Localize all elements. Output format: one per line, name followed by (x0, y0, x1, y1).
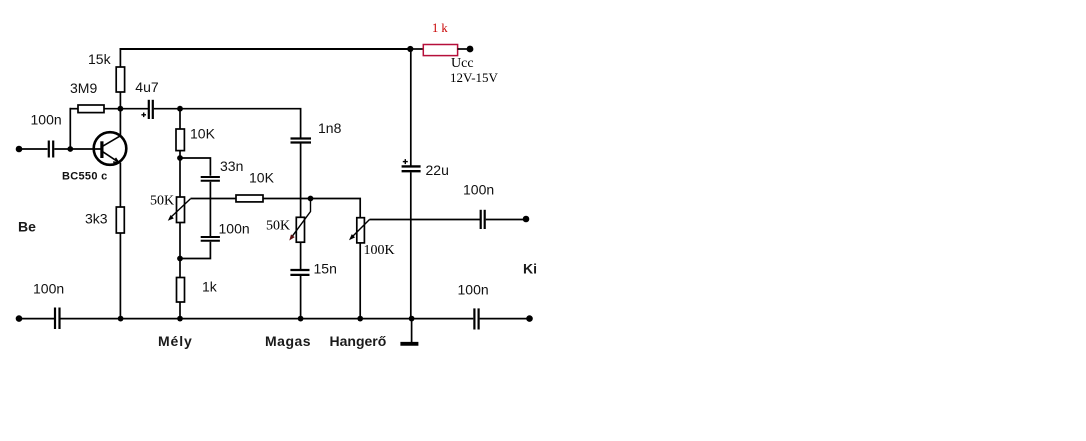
node base junction (67, 146, 73, 152)
wire emitter to 3k3 (119, 163, 121, 207)
node collector junction (118, 106, 124, 112)
wire top supply rail (120, 48, 411, 50)
svg-text:Magas: Magas (265, 333, 311, 349)
plus sign 4u7 (141, 113, 146, 118)
wire output cap to Ki terminal (486, 219, 523, 221)
wire 10K to node B (179, 151, 181, 158)
svg-text:100n: 100n (463, 181, 494, 197)
wire bottom rail left (19, 318, 54, 320)
wire node A down to 10K (179, 109, 181, 129)
capacitor 100n mid (201, 237, 220, 241)
svg-text:1n8: 1n8 (318, 120, 342, 136)
resistor 3k3 (116, 207, 124, 233)
wire base node to transistor base (70, 148, 100, 150)
wire R red to Ucc terminal (458, 48, 467, 50)
wire 3M9 right lead to collector node (104, 108, 120, 110)
wire 22u to ground node (410, 172, 412, 318)
node C junction (177, 256, 183, 262)
svg-text:50K: 50K (150, 193, 174, 208)
terminal Ki top (523, 216, 530, 223)
capacitor C2 4u7 (149, 100, 153, 119)
terminal Ucc (467, 46, 474, 53)
svg-text:4u7: 4u7 (135, 79, 159, 95)
node rail ground (409, 316, 415, 322)
svg-text:33n: 33n (220, 158, 243, 174)
resistor 10K vertical (176, 129, 184, 151)
wire 10K to node D (263, 198, 311, 200)
wire C1 to base node (54, 148, 70, 150)
wire node B to 33n (180, 158, 210, 176)
svg-text:100n: 100n (33, 281, 64, 297)
svg-text:50K: 50K (266, 218, 290, 233)
wire collector node to 4u7 (120, 108, 148, 110)
resistor 3M9 (78, 105, 104, 113)
svg-text:10K: 10K (249, 170, 275, 186)
svg-text:Be: Be (18, 219, 36, 235)
plus sign 22u (403, 159, 408, 164)
wire pot Mely bottom to node C (179, 223, 181, 259)
terminal input top (16, 146, 23, 153)
capacitor 33n (201, 177, 220, 181)
svg-text:15n: 15n (314, 261, 337, 277)
resistor 1k red (423, 45, 457, 56)
wire node C to 1k (179, 259, 181, 278)
wire supply node down to 22u (410, 49, 412, 166)
svg-text:10K: 10K (190, 126, 216, 142)
svg-text:100K: 100K (364, 243, 395, 258)
resistor R 15k (116, 67, 124, 92)
svg-text:Ki: Ki (523, 261, 537, 277)
potentiometer 50K Mely (168, 197, 191, 223)
wire node B down to pot Mely (179, 158, 181, 197)
wire 4u7 to node A (154, 108, 180, 110)
capacitor 100n bottom input (55, 308, 60, 330)
node D junction (308, 196, 314, 202)
wire 15k top to rail corner (119, 48, 121, 67)
wire 33n to 100n (209, 182, 211, 236)
terminal Ki bottom (526, 315, 533, 322)
terminal input bottom (16, 315, 23, 322)
wire collector node to 15k (119, 92, 121, 109)
wire 3M9 left lead (70, 108, 78, 110)
wire pot Hangero bottom to ground rail (359, 243, 361, 319)
svg-text:Ucc: Ucc (451, 56, 474, 71)
wire 15n to ground rail (300, 276, 302, 319)
svg-text:3k3: 3k3 (85, 211, 108, 227)
resistor 1k (177, 278, 185, 303)
node supply junction (407, 46, 413, 52)
svg-text:12V-15V: 12V-15V (450, 70, 499, 85)
wire base node up to R 3M9 (69, 108, 71, 149)
svg-text:BC550 c: BC550 c (62, 170, 108, 182)
wire pot Magas bottom to 15n (300, 242, 302, 269)
wire 100n to node C (180, 242, 210, 259)
svg-text:1k: 1k (202, 279, 218, 295)
svg-text:100n: 100n (219, 220, 250, 236)
wire 3k3 to ground rail (119, 233, 121, 319)
svg-text:Hangerő: Hangerő (330, 333, 387, 349)
capacitor 15n (290, 270, 309, 275)
wire supply node to R red (411, 48, 424, 50)
svg-text:100n: 100n (31, 111, 62, 127)
wire node A to 1n8 branch (180, 109, 301, 138)
potentiometer 100K Hangero (349, 218, 370, 243)
node rail 1k (177, 316, 183, 322)
potentiometer 50K Magas (289, 199, 310, 243)
node rail Hangero (357, 316, 363, 322)
svg-text:3M9: 3M9 (70, 80, 97, 96)
node B junction (177, 155, 183, 161)
node A junction (177, 106, 183, 112)
wire collector up to node (119, 109, 121, 136)
transistor Q1 BC550 (94, 132, 127, 165)
svg-text:Mély: Mély (158, 333, 193, 349)
capacitor C1 100n input (49, 141, 53, 158)
wire output bottom to terminal (480, 318, 527, 320)
resistor 10K horizontal (236, 195, 263, 202)
svg-text:15k: 15k (88, 51, 112, 67)
capacitor 1n8 (291, 139, 312, 143)
wire bottom rail (61, 318, 474, 320)
wire wiper Hangero to output cap (370, 219, 481, 221)
svg-text:22u: 22u (426, 162, 449, 178)
node rail 3k3 (118, 316, 124, 322)
svg-text:100n: 100n (458, 282, 489, 298)
wire 1k to ground rail (179, 302, 181, 319)
capacitor 22u (402, 166, 421, 171)
svg-text:1 k: 1 k (432, 21, 448, 35)
ground (400, 319, 418, 344)
capacitor 100n output bottom (474, 308, 478, 329)
wire 1n8 down to Magas pot (300, 144, 302, 218)
capacitor 100n output top (481, 210, 485, 229)
wire input to C1 (19, 148, 48, 150)
wire wiper Mely to 10K horizontal (191, 198, 237, 200)
node rail 15n (298, 316, 304, 322)
wire node D to pot Hangero (311, 199, 361, 218)
